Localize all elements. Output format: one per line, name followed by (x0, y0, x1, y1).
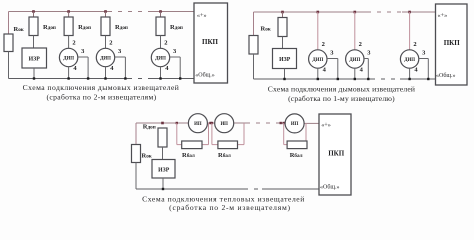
svg-text:4: 4 (73, 65, 77, 72)
node: pin3 bottom junction (DIP2 D1) (124, 77, 126, 79)
caption D3 line1 (142, 194, 305, 203)
node: pin4 bottom junction (DIP3 D1) (159, 77, 161, 79)
block PKP (D1) (194, 3, 228, 83)
heat detector IP2 D3 (215, 114, 234, 133)
wire: D3 rail IP3 to PKP (304, 122, 319, 124)
pin 4 label (DIP2 D1) (110, 65, 114, 72)
resistor Rdop (DIP1 D1) (64, 17, 73, 36)
svg-text:Rбал: Rбал (290, 152, 303, 159)
svg-text:ИЗР: ИЗР (279, 57, 291, 63)
caption D3 line2 (169, 203, 291, 212)
smoke detector DIP1 D2 (309, 50, 327, 68)
label Rdop (D1 IZR branch) (43, 24, 56, 31)
node: rail junction left of IP1 D3 (176, 122, 178, 124)
label Rbal (IP2 D3) (218, 152, 231, 159)
smoke detector DIP2 D2 (346, 50, 364, 68)
smoke detector DIP3 D2 (400, 50, 418, 68)
wire: D2 left drop to Rok (253, 12, 255, 36)
pin 3 label (DIP1 D1) (81, 48, 85, 55)
wire: right leg of Rbal (IP1 D3) (202, 123, 209, 145)
node: D2 IZR bottom junction (283, 78, 285, 80)
wire: rail drop to pin2 (DIP3 D2) (409, 12, 411, 50)
wire: D2 bottom rail dashed break (371, 78, 400, 80)
block PKP (D3) (319, 114, 351, 195)
node: junction on top rail at DIP1 D2 (317, 11, 320, 14)
svg-text:«+»: «+» (197, 12, 207, 19)
wire: D3 Rdop to IZR box (162, 147, 164, 160)
svg-text:Rок: Rок (14, 26, 24, 33)
wire: left leg of Rbal (IP3 D3) (284, 123, 287, 145)
wire: D1 left drop to Rok (8, 12, 10, 35)
pin 3 label (DIP2 D2) (367, 50, 371, 57)
wire: pin3 (DIP3 D2) (419, 59, 429, 80)
svg-text:2: 2 (359, 41, 362, 48)
wire: pin3 (DIP3 D1) (170, 57, 181, 79)
wire: D3 rail between IP1 and IP2 (207, 122, 214, 124)
node: rail junction between IP1 and IP2 (209, 122, 211, 124)
wire: stub rail to Rdop (DIP2 D1) (105, 12, 107, 18)
wire: D2 Rdop to IZR box (282, 37, 284, 49)
pin 4 label (DIP1 D2) (323, 67, 327, 74)
pin 4 label (DIP2 D2) (360, 67, 364, 74)
svg-text:4: 4 (414, 67, 418, 74)
wire: pin4 (DIP2 D1) (105, 67, 107, 79)
block IZR (D2) (273, 49, 297, 69)
svg-text:«+»: «+» (438, 12, 448, 19)
svg-text:2: 2 (322, 41, 325, 48)
svg-text:Схема подключения дымовых изве: Схема подключения дымовых извещателей (23, 83, 180, 92)
svg-text:(сработка по 2-м извещателям): (сработка по 2-м извещателям) (46, 92, 156, 101)
label Rbal (IP3 D3) (290, 152, 303, 159)
svg-text:ПКП: ПКП (444, 39, 461, 47)
wire: stub rail to Rdop (DIP3 D1) (160, 12, 162, 18)
terminal «+» (D3 PKP) (321, 122, 331, 129)
terminal «Общ.» (D3 PKP) (320, 183, 340, 190)
pin 2 label (DIP3 D2) (413, 41, 416, 48)
wire: D2 top rail dashed break (367, 11, 402, 13)
node: D2 junction at IZR branch (281, 11, 284, 14)
resistor Rok (D3) (132, 145, 141, 163)
wire: D1 top (+) rail dashed break (108, 11, 152, 13)
node: pin3 bottom junction (DIP3 D2) (427, 78, 429, 80)
svg-text:Rдоп: Rдоп (115, 24, 128, 31)
label Rok (D2) (261, 26, 271, 33)
svg-text:Rдоп: Rдоп (78, 24, 91, 31)
svg-text:2: 2 (413, 41, 416, 48)
node: rail junction left of IP3 D3 (283, 122, 285, 124)
wire: pin4 (DIP1 D1) (68, 67, 70, 79)
svg-text:ПКП: ПКП (328, 149, 345, 157)
smoke detector DIP1 D1 (59, 48, 77, 66)
pin 2 label (DIP2 D2) (359, 41, 362, 48)
svg-text:Rдоп: Rдоп (43, 24, 56, 31)
wire: D1 IZR to bottom rail (33, 68, 35, 79)
node: pin3 bottom junction (DIP1 D2) (337, 78, 339, 80)
label PKP (D3) (328, 149, 345, 157)
svg-text:Схема подключения дымовых изве: Схема подключения дымовых извещателей (268, 85, 415, 94)
resistor Rok (D2) (249, 36, 258, 55)
pin 3 label (DIP3 D1) (173, 48, 177, 55)
svg-text:2: 2 (72, 39, 75, 46)
pin 3 label (DIP1 D2) (330, 50, 334, 57)
wire: stub rail to Rdop (DIP1 D1) (68, 12, 70, 18)
svg-text:ИП: ИП (194, 122, 202, 127)
wire: pin3 (DIP1 D1) (78, 57, 88, 79)
wire: D1 bottom (Obsh) rail left segment (9, 78, 129, 80)
label PKP (D1) (202, 38, 219, 46)
wire: pin3 (DIP1 D2) (327, 59, 338, 80)
node: junction on top rail at DIP3 D2 (408, 11, 411, 14)
wire: right leg of Rbal (IP2 D3) (238, 123, 245, 145)
wire: D1 bottom rail right segment to PKP (150, 78, 194, 80)
svg-text:4: 4 (360, 67, 364, 74)
wire: D2 IZR to bottom rail (284, 69, 286, 80)
svg-text:Rбал: Rбал (218, 152, 231, 159)
block IZR (D1) (22, 48, 47, 68)
node: D1 IZR bottom junction (33, 77, 35, 79)
resistor Rdop (DIP2 D1) (101, 17, 110, 36)
label Rdop (DIP2 D1) (115, 24, 128, 31)
node: pin3 bottom junction (DIP3 D1) (179, 77, 181, 79)
svg-text:«Общ.»: «Общ.» (320, 183, 340, 190)
wire: D2 top (+) rail left segment (254, 11, 368, 13)
block PKP (D2) (436, 4, 468, 85)
wire: pin3 (DIP2 D1) (115, 57, 126, 79)
svg-text:Rдоп: Rдоп (143, 123, 156, 130)
block IZR (D3) (152, 160, 175, 179)
svg-text:Rок: Rок (261, 26, 271, 33)
node: rail junction before IP3 (280, 122, 282, 124)
caption D1 line1 (23, 83, 180, 92)
smoke detector DIP3 D1 (151, 48, 169, 66)
node: pin4 bottom junction (DIP3 D2) (408, 78, 410, 80)
svg-text:ИП: ИП (220, 122, 228, 127)
svg-text:3: 3 (422, 50, 426, 57)
pin 2 label (DIP3 D1) (164, 39, 167, 46)
wire: pin4 (DIP3 D2) (409, 68, 411, 79)
smoke detector DIP2 D1 (96, 48, 114, 66)
svg-text:3: 3 (330, 50, 334, 57)
resistor Rdop (D3) (158, 128, 167, 147)
resistor Rbal (IP2 D3) (218, 141, 238, 149)
wire: D3 Rok to bottom rail (135, 163, 137, 190)
node: junction on top rail at DIP2 D1 (104, 10, 107, 13)
wire: left leg of Rbal (IP2 D3) (212, 123, 218, 145)
wire: D3 bottom rail right segment to PKP (262, 188, 319, 190)
wire: D2 Rok to bottom rail (253, 54, 255, 79)
wire: D3 rail after IP2 (234, 122, 246, 124)
node: D3 IZR bottom junction (162, 188, 164, 190)
terminal «+» (D2 PKP) (438, 12, 448, 19)
wire: D3 bottom (Obsh) rail left segment (136, 188, 244, 190)
wire: D1 bottom rail dashed break (128, 78, 150, 80)
svg-text:«+»: «+» (321, 122, 331, 129)
svg-text:2: 2 (164, 39, 167, 46)
wire: D1 stub rail to Rdop1 (33, 12, 35, 18)
node: junction on top rail at DIP3 D1 (159, 10, 162, 13)
caption D2 line2 (288, 94, 395, 103)
wire: Rdop to pin2 (DIP3 D1) (160, 36, 162, 49)
label Rdop (DIP3 D1) (170, 24, 183, 31)
svg-text:Rдоп: Rдоп (170, 24, 183, 31)
pin 4 label (DIP1 D1) (73, 65, 77, 72)
svg-text:ПКП: ПКП (202, 38, 219, 46)
caption D1 line2 (46, 92, 156, 101)
wire: D3 bottom rail dashed break (244, 188, 262, 190)
svg-text:Rбал: Rбал (182, 152, 195, 159)
wire: left leg of Rbal (IP1 D3) (177, 123, 182, 145)
heat detector IP3 D3 (285, 114, 304, 133)
wire: pin4 (DIP3 D1) (160, 67, 162, 79)
wire: D2 stub rail to Rdop (282, 12, 284, 18)
wire: rail drop to pin2 (DIP1 D2) (317, 12, 319, 50)
svg-text:ДИП: ДИП (155, 57, 166, 62)
resistor Rok (D1) (4, 34, 13, 52)
svg-text:(сработка по 2-м извещателям): (сработка по 2-м извещателям) (169, 203, 291, 212)
node: pin4 bottom junction (DIP1 D2) (317, 78, 319, 80)
label Rbal (IP1 D3) (182, 152, 195, 159)
caption D2 line1 (268, 85, 415, 94)
resistor Rdop (DIP3 D1) (156, 17, 165, 36)
terminal «Общ.» (D1 PKP) (195, 71, 215, 78)
wire: D1 top (+) rail left segment (9, 11, 109, 13)
wire: rail drop to pin2 (DIP2 D2) (354, 12, 356, 50)
label Rok (D3) (142, 152, 152, 159)
pin 2 label (DIP1 D2) (322, 41, 325, 48)
node: D3 junction at Rdop branch (161, 122, 164, 125)
node: pin4 bottom junction (DIP2 D2) (354, 78, 356, 80)
wire: D1 Rdop1 to IZR box (33, 36, 35, 49)
wire: Rdop to pin2 (DIP2 D1) (105, 36, 107, 49)
pin 4 label (DIP3 D2) (414, 67, 418, 74)
wire: pin4 (DIP1 D2) (317, 68, 319, 79)
svg-text:ИП: ИП (291, 122, 299, 127)
wire: pin4 (DIP2 D2) (354, 68, 356, 79)
wire: pin3 (DIP2 D2) (364, 59, 368, 80)
label Rdop (D3) (143, 123, 156, 130)
wire: D1 top (+) rail right segment to PKP (152, 11, 194, 13)
wire: D2 top rail right segment to PKP (402, 11, 436, 13)
svg-text:«Общ.»: «Общ.» (436, 72, 456, 79)
node: pin4 bottom junction (DIP2 D1) (104, 77, 106, 79)
label Rok (D1) (14, 26, 24, 33)
pin 4 label (DIP3 D1) (165, 65, 169, 72)
svg-text:(сработка по 1-му извещателю): (сработка по 1-му извещателю) (288, 94, 395, 103)
wire: D3 top (+) rail to IP1 (136, 122, 188, 124)
svg-text:ДИП: ДИП (63, 57, 74, 62)
pin 2 label (DIP1 D1) (72, 39, 75, 46)
wire: Rdop to pin2 (DIP1 D1) (68, 36, 70, 49)
svg-text:ДИП: ДИП (404, 58, 415, 63)
svg-text:3: 3 (118, 48, 122, 55)
svg-text:4: 4 (110, 65, 114, 72)
wire: D3 left drop to Rok (135, 123, 137, 145)
svg-text:ИЗР: ИЗР (158, 168, 170, 174)
svg-text:3: 3 (173, 48, 177, 55)
node: junction on top rail at DIP2 D2 (354, 11, 357, 14)
node: D1 junction at IZR branch (32, 10, 35, 13)
wire: D2 bottom rail right segment to PKP (400, 78, 436, 80)
svg-text:Rок: Rок (142, 152, 152, 159)
resistor Rbal (IP1 D3) (182, 141, 202, 149)
svg-text:3: 3 (81, 48, 85, 55)
terminal «+» (D1 PKP) (197, 12, 207, 19)
svg-text:4: 4 (323, 67, 327, 74)
node: pin3 bottom junction (DIP1 D1) (87, 77, 89, 79)
node: pin4 bottom junction (DIP1 D1) (67, 77, 69, 79)
label PKP (D2) (444, 39, 461, 47)
resistor Rbal (IP3 D3) (287, 141, 307, 149)
pin 2 label (DIP2 D1) (109, 39, 112, 46)
svg-text:ДИП: ДИП (312, 58, 323, 63)
wire: D2 bottom (Obsh) rail left segment (254, 78, 372, 80)
wire: D3 rail before IP3 (278, 122, 286, 124)
label Rdop (DIP1 D1) (78, 24, 91, 31)
pin 3 label (DIP2 D1) (118, 48, 122, 55)
svg-text:ИЗР: ИЗР (29, 57, 41, 63)
resistor Rdop (D1 IZR branch) (29, 17, 38, 36)
pin 3 label (DIP3 D2) (422, 50, 426, 57)
wire: D3 top rail dashed break (246, 122, 278, 124)
svg-text:ДИП: ДИП (100, 57, 111, 62)
resistor Rdop (D2 IZR branch) (278, 18, 287, 37)
wire: right leg of Rbal (IP3 D3) (306, 123, 307, 145)
svg-text:2: 2 (109, 39, 112, 46)
wire: D1 Rok to bottom rail (8, 52, 10, 79)
svg-text:ДИП: ДИП (349, 58, 360, 63)
node: rail junction left of IP2 D3 (211, 122, 213, 124)
svg-text:3: 3 (367, 50, 371, 57)
terminal «Общ.» (D2 PKP) (436, 72, 456, 79)
node: pin3 bottom junction (DIP2 D2) (367, 78, 369, 80)
wire: D3 IZR to bottom rail (162, 178, 164, 189)
svg-text:4: 4 (165, 65, 169, 72)
node: junction on top rail at DIP1 D1 (67, 10, 70, 13)
heat detector IP1 D3 (188, 114, 207, 133)
svg-text:«Общ.»: «Общ.» (195, 71, 215, 78)
